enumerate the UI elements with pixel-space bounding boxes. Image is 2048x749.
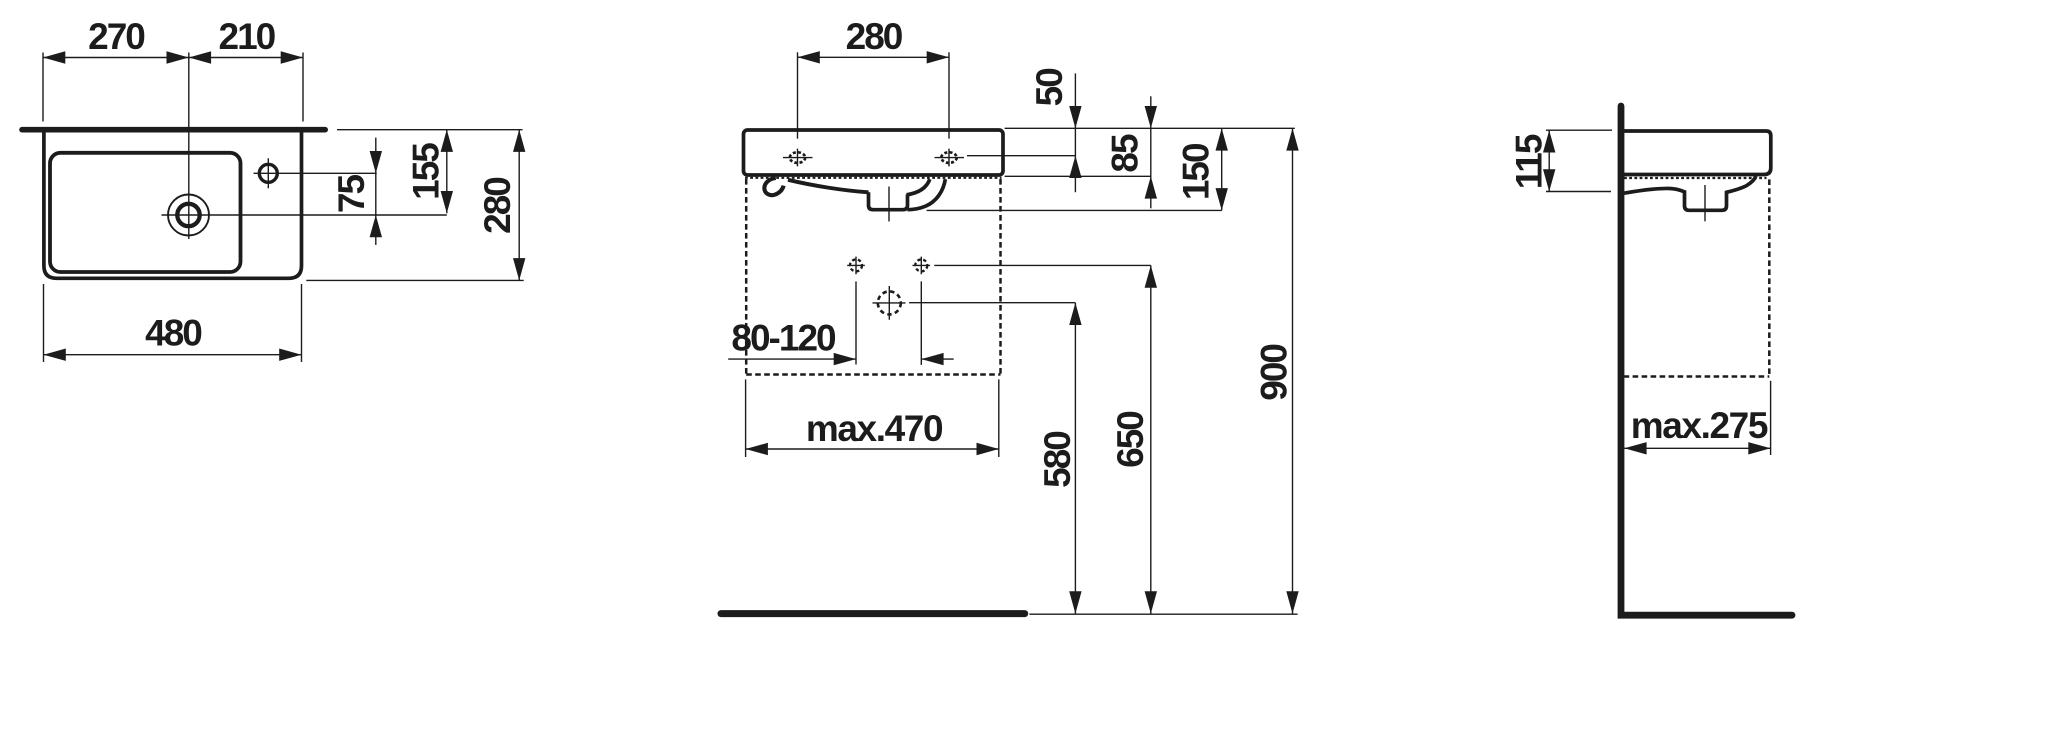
svg-text:75: 75 (331, 175, 372, 214)
arrow 150 top (1216, 128, 1228, 150)
arrow max.275 left (1624, 442, 1646, 454)
arrow right end 210 (281, 51, 303, 63)
extension line left (270) (42, 53, 44, 122)
drain trap (front view) (869, 192, 908, 209)
bowl inner right curve (front view) (907, 179, 930, 195)
arrow max.470 left (746, 443, 768, 455)
dimension line 900 (1292, 128, 1294, 613)
drain inner circle (177, 204, 199, 226)
tap hole left crosshair (783, 149, 813, 167)
arrow 155 top (441, 130, 453, 152)
wall line (top view, thick) (22, 127, 325, 133)
arrow 85 upper (pointing down to rim) (1145, 106, 1157, 128)
dashed zone right edge (side view) (1768, 179, 1771, 376)
arrow middle right 210 (189, 51, 211, 63)
svg-text:150: 150 (1176, 143, 1217, 200)
svg-text:210: 210 (219, 16, 276, 57)
arrow 80-120 right (pointing left) (921, 353, 943, 365)
reference line bottom (right side) (306, 279, 523, 281)
dashed installation zone bottom edge (746, 373, 1000, 376)
svg-text:270: 270 (88, 16, 145, 57)
reference line body bottom (1005, 175, 1151, 177)
mounting hole left crosshair (847, 257, 865, 275)
arrow left 480 (44, 349, 66, 361)
arrow 50 lower (pointing up to hole line) (1069, 156, 1081, 178)
extension line left (480) (43, 284, 45, 362)
svg-text:280: 280 (846, 16, 903, 57)
arrow middle left 270 (167, 51, 189, 63)
dashed installation zone left edge (745, 179, 748, 375)
tap hole left (dashed, front view) (790, 152, 805, 163)
svg-text:650: 650 (1110, 411, 1151, 468)
arrow 155 bottom (441, 191, 453, 213)
bowl profile with drain trap (side view) (1624, 176, 1756, 210)
svg-text:280: 280 (477, 177, 518, 234)
dimension line 150 (1221, 128, 1223, 210)
drain hole (dashed, front view) (878, 291, 901, 314)
svg-text:80-120: 80-120 (731, 317, 836, 358)
drain outer circle (168, 195, 209, 236)
svg-text:900: 900 (1253, 344, 1294, 401)
dimension line max.470 (746, 448, 999, 450)
reference line drain hole level (909, 302, 1075, 304)
dimension line 480 (44, 354, 302, 356)
extension line max.470 right (998, 379, 1000, 457)
basin body (front view) (744, 130, 1004, 175)
reference line 115 top (1546, 129, 1612, 131)
svg-text:115: 115 (1509, 134, 1550, 189)
dimension line 280 (left view) (518, 130, 520, 281)
arrow 75 top (pointing down to tap line) (370, 151, 382, 173)
svg-text:50: 50 (1029, 68, 1070, 107)
extension line max.275 right (1770, 381, 1772, 455)
arrow 280 right (927, 51, 949, 63)
arrow 650 bottom (1145, 591, 1157, 613)
arrow max.275 right (1748, 442, 1770, 454)
arrow 580 bottom (1069, 591, 1081, 613)
arrow 650 top (1145, 265, 1157, 287)
svg-text:580: 580 (1037, 431, 1078, 488)
dimension line 75 (375, 138, 377, 245)
tap hole right crosshair (935, 149, 965, 167)
dimension line 85 (1150, 96, 1152, 208)
tap hole right (dashed, front view) (941, 152, 956, 163)
arrow max.470 right (977, 443, 999, 455)
arrow 280 top (513, 130, 525, 152)
dimension line 650 (1150, 265, 1152, 613)
arrow 115 top (1543, 130, 1555, 152)
arrow 900 bottom (1286, 591, 1298, 613)
reference line drain (162, 214, 447, 216)
arrow 85 lower (pointing up to body bottom) (1145, 176, 1157, 198)
reference line top rim (right side) (337, 129, 523, 131)
arrow 50 upper (pointing down to rim) (1069, 106, 1081, 128)
arrow 280 left (798, 51, 820, 63)
hidden rim dotted line (side view) (1624, 177, 1767, 179)
mounting hole right crosshair (913, 257, 931, 275)
dimension line 50 (1074, 73, 1076, 192)
dimension line max.275 (1624, 447, 1770, 449)
dimension line 280 (front view) (798, 56, 950, 58)
dashed installation zone right edge (999, 179, 1002, 375)
mounting hole right (dashed) (915, 259, 927, 271)
mounting hole left (dashed) (850, 259, 862, 271)
reference line mounting holes level (934, 264, 1151, 266)
reference line overflow bottom (927, 209, 1222, 211)
tap hole (top view) (259, 164, 277, 182)
drain hole crosshair (873, 286, 906, 320)
arrow right 480 (279, 349, 301, 361)
basin outer outline (top view) (44, 130, 302, 278)
drain centerline (side view) (1704, 185, 1706, 221)
arrow 580 top (1069, 303, 1081, 325)
floor line (front view, thick) (721, 610, 1025, 617)
extension line 280 right (948, 52, 950, 138)
arrow 900 top (1286, 128, 1298, 150)
bowl outer right curve (front view) (908, 179, 946, 210)
dimension line 80-120 left segment (728, 358, 856, 360)
extension line max.470 left (745, 379, 747, 457)
wall and floor (side view, thick L) (1621, 106, 1792, 615)
dimension line 270/210 (43, 57, 303, 59)
svg-text:85: 85 (1105, 134, 1146, 173)
arrow 75 bottom (pointing up to drain line) (370, 215, 382, 237)
reference line tap holes level (967, 155, 1075, 157)
drain centerline (front view) (888, 187, 890, 222)
svg-text:max.470: max.470 (806, 408, 943, 449)
extension line 80-120 right (920, 281, 922, 365)
extension line right (210) (302, 53, 304, 122)
reference line tap hole (254, 172, 377, 174)
overflow hook (bowl left, front view) (764, 178, 783, 195)
svg-text:max.275: max.275 (1631, 405, 1768, 446)
basin body (side view) (1622, 131, 1771, 175)
basin inner bowl outline (top view) (50, 153, 241, 272)
arrow 150 bottom (1216, 188, 1228, 210)
extension line 80-120 left (855, 281, 857, 364)
dashed zone bottom edge (side view) (1624, 375, 1770, 378)
svg-text:155: 155 (406, 143, 447, 200)
arrow 280 bottom (513, 258, 525, 280)
arrow 80-120 left (pointing right) (834, 353, 856, 365)
arrow 115 bottom (1543, 169, 1555, 191)
dimension line 115 (1548, 130, 1550, 191)
hidden rim dotted line (front view) (745, 177, 1002, 179)
extension line 280 left (797, 52, 799, 138)
tap hole crosshair vertical (267, 158, 269, 188)
floor reference line (thin) (1029, 613, 1297, 615)
dimension line 155 (446, 130, 448, 214)
dimension line 580 (1074, 303, 1076, 614)
extension line middle (270/210) through drain (188, 53, 190, 240)
extension line right (480) (301, 284, 303, 362)
reference line 115 bottom (1546, 191, 1611, 193)
reference line rim (right) (1005, 127, 1295, 129)
arrow left end 270 (43, 51, 65, 63)
svg-text:480: 480 (145, 313, 202, 354)
dimension line 80-120 right segment (921, 358, 953, 360)
bowl bottom swoop (front view) (788, 180, 869, 193)
